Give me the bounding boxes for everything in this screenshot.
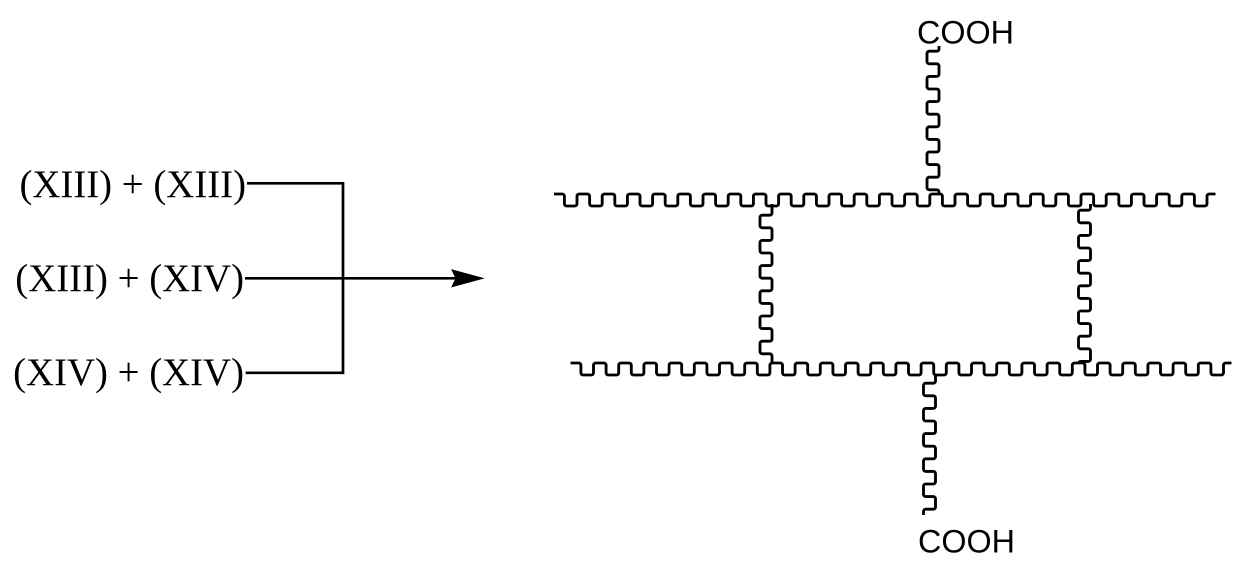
right crosslink — [1079, 204, 1091, 364]
svg-text:(XIII) + (XIV): (XIII) + (XIV) — [15, 257, 244, 300]
wire vertical bracket — [342, 182, 345, 374]
left crosslink — [760, 204, 772, 364]
svg-text:COOH: COOH — [917, 14, 1014, 50]
top polymer chain — [554, 194, 1215, 206]
arrow shaft from label 2 — [245, 277, 456, 280]
bottom pendant chain — [924, 374, 936, 515]
bottom polymer chain — [571, 363, 1232, 375]
wire from label 3 — [246, 371, 343, 374]
arrowhead — [452, 270, 483, 287]
wire from label 1 — [247, 182, 343, 185]
svg-text:(XIII) + (XIII): (XIII) + (XIII) — [19, 163, 246, 206]
svg-text:(XIV) + (XIV): (XIV) + (XIV) — [13, 351, 244, 394]
svg-text:COOH: COOH — [918, 524, 1015, 560]
top pendant chain — [927, 46, 939, 195]
